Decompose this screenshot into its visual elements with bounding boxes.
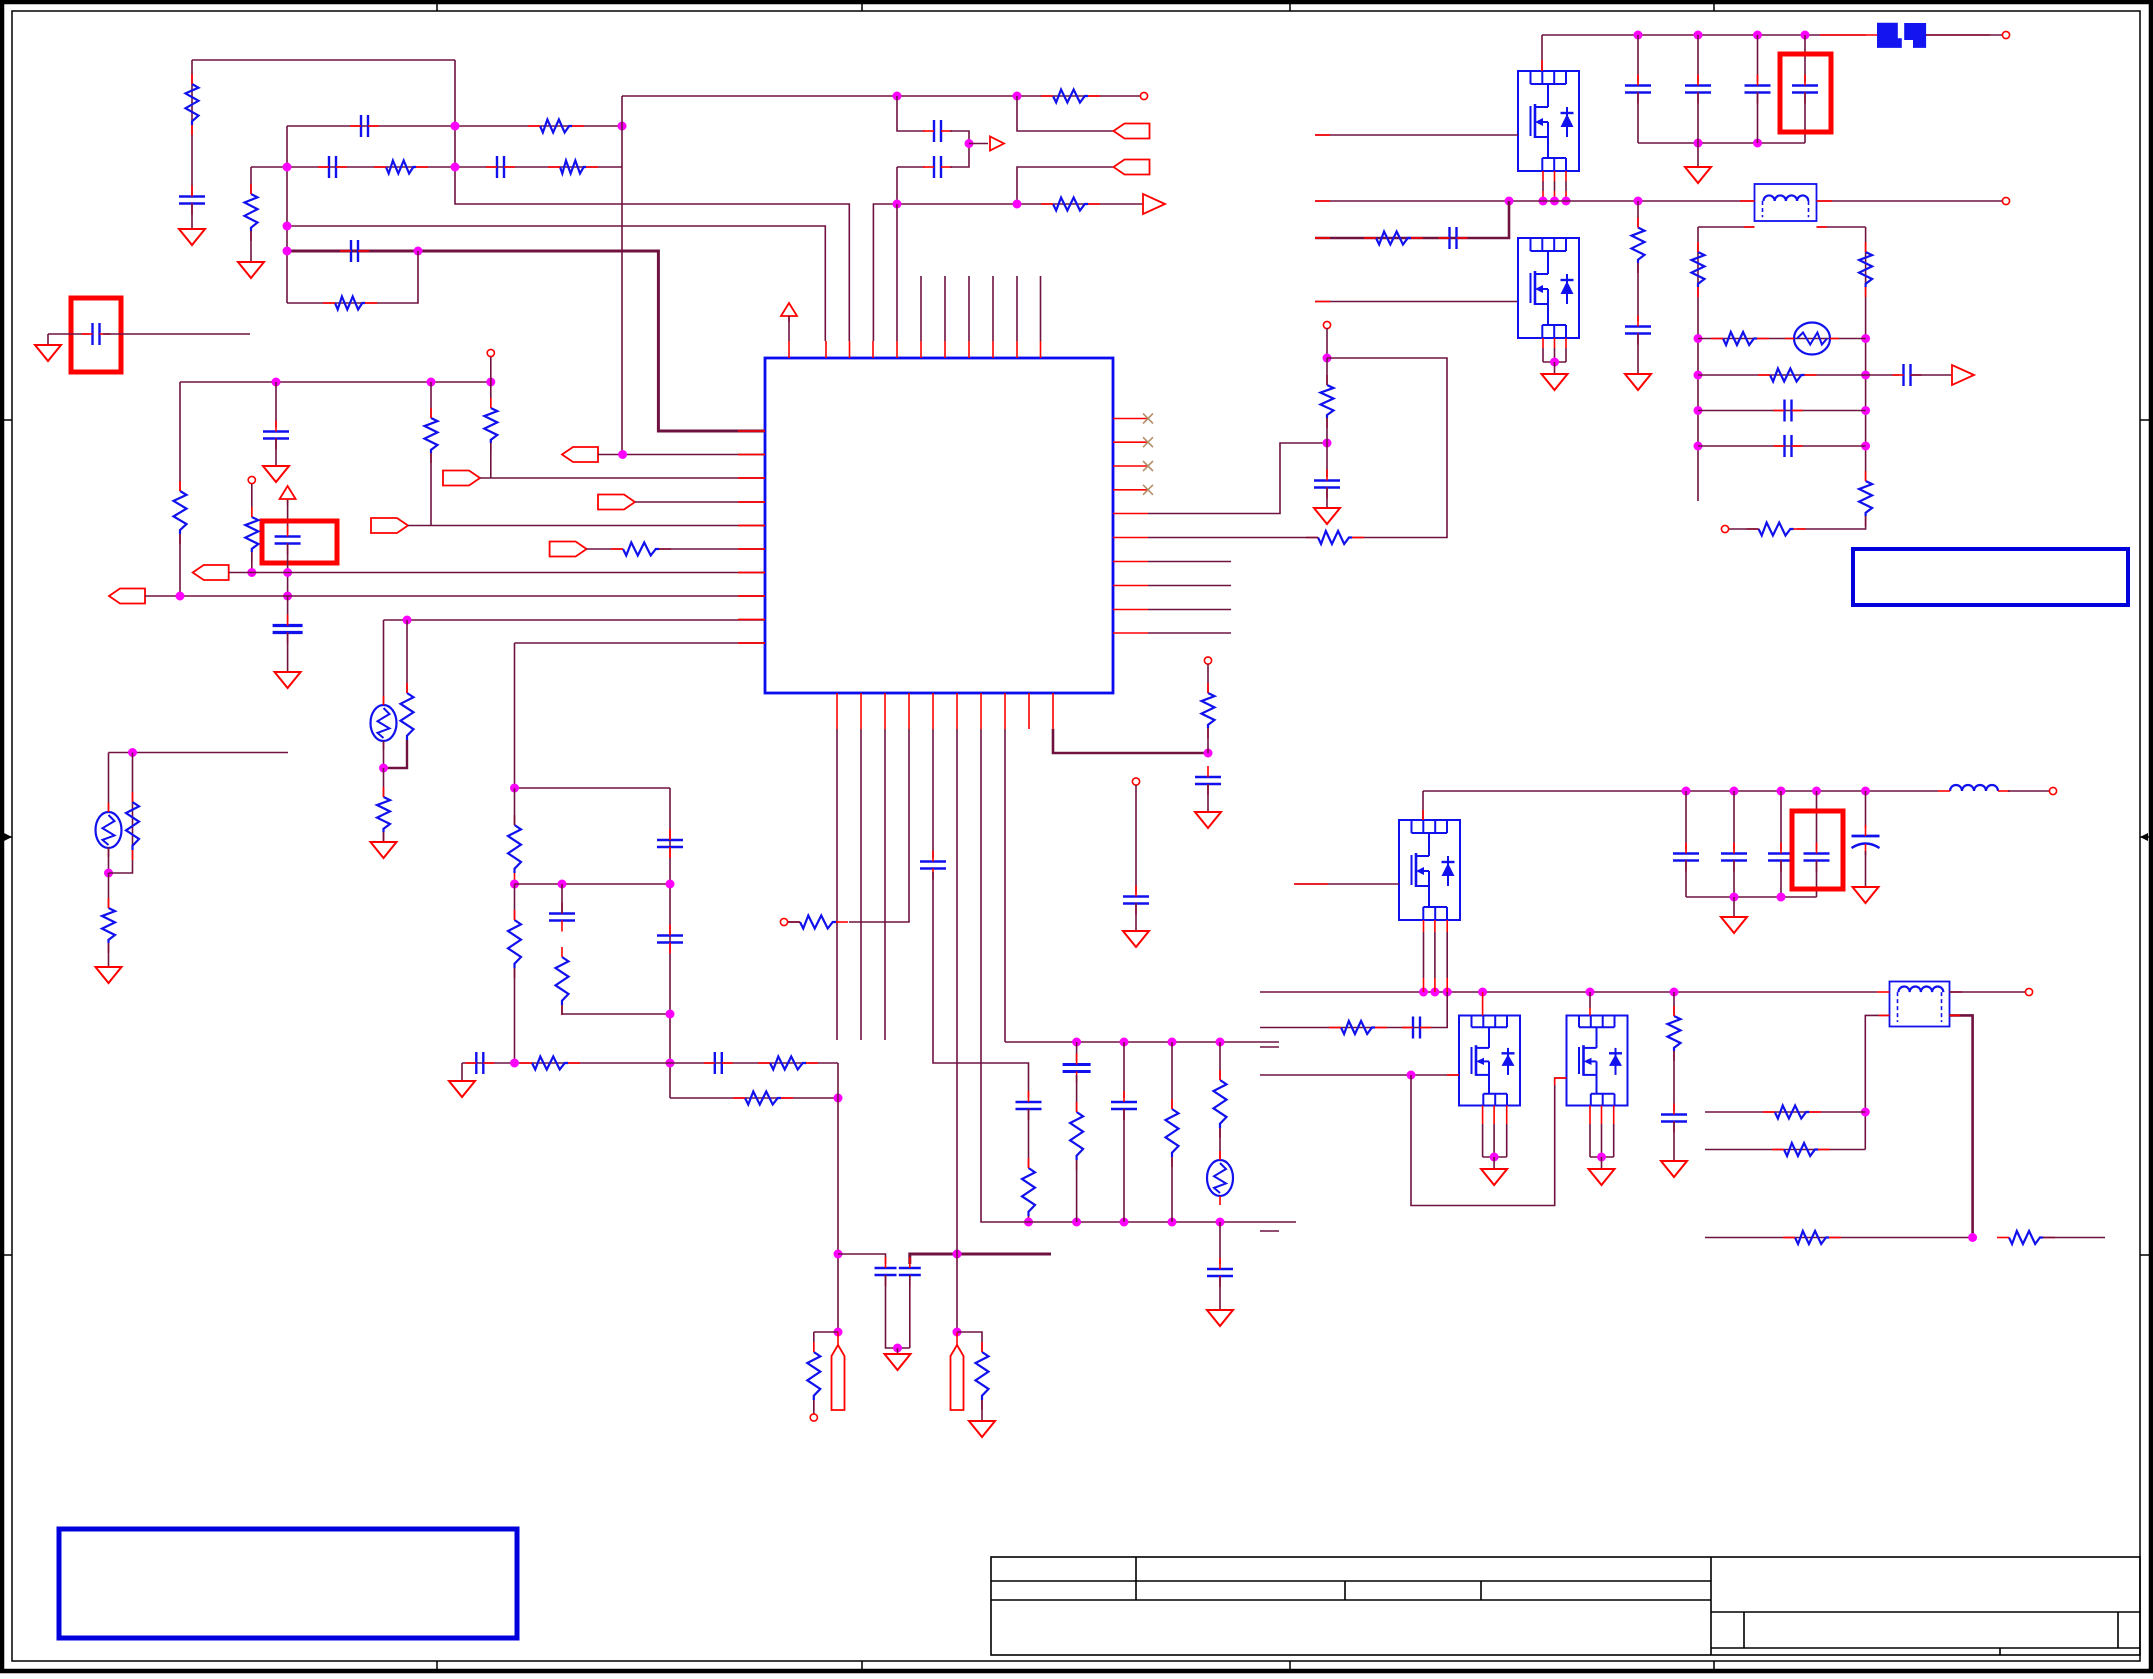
wire vcc stem	[788, 316, 790, 341]
node row1042 1172	[1168, 1038, 1177, 1047]
capacitor bank1 1757.5	[1745, 75, 1771, 104]
node 1208-753	[1204, 749, 1213, 758]
wire x514 884-920	[514, 884, 516, 920]
ground G1	[179, 229, 205, 245]
wire rail R1	[1865, 227, 1867, 481]
wire row752	[109, 752, 289, 754]
wire x108 873-908	[108, 873, 110, 908]
wire src4 stem	[1493, 1157, 1495, 1169]
node L1 446	[1694, 442, 1703, 451]
terminal T2	[487, 349, 494, 356]
node 670-1063	[666, 1059, 675, 1068]
connector J3	[562, 447, 598, 462]
pin U1 top 7	[944, 341, 946, 358]
capacitor C25	[1123, 886, 1149, 915]
wire x1638 263-321	[1637, 263, 1639, 321]
wire capB down	[909, 1275, 911, 1348]
wire rung2-3	[1705, 1237, 1973, 1239]
node row1-622	[618, 122, 627, 131]
resistor R43	[1783, 1231, 1841, 1244]
pin U1 top 6	[920, 341, 922, 358]
resistor R32	[1632, 218, 1645, 274]
wire x813 1400-1414	[813, 1400, 815, 1414]
wire 251 552-572	[251, 552, 253, 573]
wire row2 y167	[251, 166, 622, 168]
wire rung2-1	[1705, 1111, 1865, 1113]
node bus1222 1172	[1168, 1218, 1177, 1227]
node 514-1063	[510, 1059, 519, 1068]
capacitor C29	[1625, 75, 1651, 104]
wire row585.5	[1148, 585, 1231, 587]
wire gate5 route	[1411, 1075, 1567, 1206]
terminal T9	[2002, 31, 2009, 38]
wire pin837 down	[836, 729, 838, 1040]
ground G10	[1195, 812, 1221, 828]
node 490-382	[486, 378, 495, 387]
wire x1327 329-358	[1326, 328, 1328, 358]
terminal T12	[2049, 787, 2056, 794]
wire row382	[180, 381, 491, 383]
ground G5	[96, 967, 122, 983]
capacitor bank1 1805	[1792, 75, 1818, 104]
pin U1 bottom 6	[956, 693, 958, 729]
resistor R46	[377, 787, 390, 842]
node row1042 1124	[1120, 1038, 1129, 1047]
red tip row238	[1315, 237, 1330, 239]
resistor R16	[508, 910, 521, 978]
connector J4	[443, 471, 480, 486]
wire rung2-3 ext	[2043, 1237, 2105, 1239]
pin U1 left 1	[738, 430, 765, 432]
capacitor C13	[549, 903, 575, 932]
node 838-1098	[834, 1094, 843, 1103]
capacitor C28	[1625, 316, 1651, 345]
node bus1 1757.5	[1753, 31, 1762, 40]
wire src4 1494.1	[1493, 1106, 1495, 1158]
ground G2	[35, 345, 61, 361]
wire xfmr2 to term	[1950, 991, 2026, 993]
node 108-873	[104, 869, 113, 878]
wire sec1	[1698, 226, 1755, 228]
ground G7	[885, 1354, 911, 1370]
highlight box red B2	[262, 521, 337, 563]
thermistor RT3	[1785, 323, 1839, 355]
wire row1098	[670, 1097, 838, 1099]
resistor R15	[508, 815, 521, 883]
wire R1 bottom	[1797, 516, 1866, 529]
connector J6	[371, 518, 408, 533]
capacitor C34	[1402, 1017, 1431, 1039]
annotation box right	[1853, 549, 2128, 605]
wire bus201 a	[1315, 200, 1755, 202]
node 670-1014	[666, 1010, 675, 1019]
connector J5	[598, 495, 635, 510]
resistor R35	[1711, 332, 1769, 345]
mosfet module Q1	[1518, 71, 1579, 171]
node 1972-1237	[1968, 1233, 1977, 1242]
wire loop 358	[1327, 358, 1447, 538]
resistor R3 row2	[374, 161, 428, 174]
wire bank1 bot 1698	[1697, 93, 1699, 143]
pin U1 left 9	[738, 619, 765, 621]
wire src5 1613.7	[1613, 1106, 1615, 1158]
red tip gate2	[1315, 301, 1330, 303]
red xfmr1 leads	[1740, 200, 1832, 202]
wire 514-788 row	[515, 787, 671, 789]
node x287 y167	[283, 163, 292, 172]
pin U1 left 5	[738, 525, 765, 527]
wire src5 join	[1590, 1156, 1614, 1158]
capacitor C9	[263, 421, 289, 450]
wire bus201 b	[1817, 200, 2004, 202]
ground G15	[1685, 167, 1711, 183]
capacitor C8 in box	[82, 323, 111, 345]
resistor R39	[1329, 1021, 1387, 1034]
wire rung4	[1698, 445, 1866, 447]
resistor R6 row96	[1041, 90, 1100, 103]
wire 251 480-516	[251, 484, 253, 517]
wire src4 join	[1483, 1156, 1507, 1158]
resistor R40	[1668, 1006, 1681, 1061]
wire x562 1005-1014	[562, 1005, 670, 1014]
capacitor bank1 1698	[1685, 75, 1711, 104]
wire x1674 1051-1111	[1673, 1051, 1675, 1111]
capacitor C4 row2	[486, 156, 515, 178]
red tip gate1	[1315, 134, 1330, 136]
wire bank2 bot 1686	[1685, 861, 1687, 897]
resistor R21	[807, 1342, 820, 1410]
pin U1 right 10	[1113, 632, 1148, 634]
node busP2 1686	[1682, 787, 1691, 796]
resistor R2b	[245, 184, 258, 241]
wire x407 740-768	[384, 740, 408, 768]
terminal T13	[2025, 988, 2032, 995]
wire x1674 992-1016	[1673, 992, 1675, 1016]
node bus1222 1220	[1216, 1218, 1225, 1227]
wire C8 gnd stem	[47, 334, 49, 345]
node bus201 1566	[1562, 197, 1571, 206]
pin U1 top 11	[1040, 341, 1042, 358]
node 514-884	[510, 880, 519, 889]
wire x180 534-595	[179, 534, 181, 595]
wire gate4 row	[1260, 1074, 1459, 1076]
wire drain3 riser	[1422, 791, 1424, 820]
node row1042 1220	[1216, 1038, 1225, 1047]
wire x1208 664-693	[1207, 664, 1209, 693]
pin U1 left 2 overlay	[738, 454, 765, 456]
wire x407 down	[406, 620, 408, 693]
terminal T3	[248, 476, 255, 483]
wire sec2 right	[1950, 1015, 1973, 1237]
wire x622 96-454	[621, 96, 623, 455]
wire pin885 down	[884, 729, 886, 1040]
red tip bus201	[1315, 200, 1330, 202]
wire stub pin 1040.5	[1040, 276, 1042, 341]
wire pin933 b	[933, 872, 1029, 1098]
resistor R27	[1214, 1070, 1227, 1138]
connector J10 up	[832, 1345, 845, 1410]
transformer TR2	[1890, 982, 1950, 1027]
wire bank1 top 1805	[1804, 35, 1806, 82]
wire rung1	[1698, 338, 1866, 340]
node bus201 1638	[1634, 197, 1643, 206]
node row96 1017	[1013, 92, 1022, 101]
resistor R10	[425, 408, 438, 463]
wire x180 382-491	[179, 382, 181, 491]
wire x383 down	[383, 620, 385, 705]
power arrow VCC	[781, 303, 797, 322]
resistor R13	[126, 792, 139, 860]
pin U1 right 3	[1113, 465, 1148, 467]
connector J11 up	[951, 1345, 964, 1410]
resistor R7 row204	[1041, 198, 1100, 211]
pin U1 left 2	[738, 454, 765, 456]
pin U1 left 10 overlay	[738, 642, 765, 644]
resistor R36	[1758, 369, 1817, 382]
wire row454	[598, 454, 765, 456]
wire row478	[480, 477, 765, 479]
power arrow 2	[280, 486, 296, 505]
wire bus1 y35	[1542, 34, 1866, 36]
node bus2 1434.9	[1430, 988, 1439, 997]
capacitor C12	[657, 829, 683, 858]
thermistor RT4	[371, 696, 397, 750]
wire bank2 top 1781	[1780, 791, 1782, 850]
wire row561.5	[1148, 561, 1231, 563]
wire x490 353-407	[490, 357, 492, 408]
node 838-1254	[834, 1250, 843, 1259]
wire x1124 1042-1098	[1123, 1042, 1125, 1098]
wire x670 788-1098	[669, 788, 671, 1098]
ground G19	[1589, 1169, 1615, 1185]
wire bank2 bot 1734	[1733, 861, 1735, 897]
wire x287 126-303	[286, 126, 288, 303]
capacitor C20	[1016, 1091, 1042, 1120]
pin U1 bottom 9	[1028, 693, 1030, 729]
no-connect X right pin 2	[1143, 437, 1153, 447]
wire row1332	[814, 1331, 838, 1333]
pin U1 right 2	[1113, 441, 1148, 443]
red gate5	[1555, 1078, 1567, 1085]
wire x1124 1110-1222	[1123, 1109, 1125, 1222]
node bus1 1638	[1634, 31, 1643, 40]
wire x132 752-873	[109, 753, 133, 874]
wire row238	[1315, 201, 1509, 238]
ground G21	[371, 842, 397, 858]
no-connect X right pin 1	[1143, 414, 1153, 424]
pin U1 top 8	[968, 341, 970, 358]
wire rung2 ext2	[1911, 374, 1952, 376]
pin U1 top 9	[992, 341, 994, 358]
wire x1327 488-508	[1326, 488, 1328, 508]
pin U1 right 4	[1113, 489, 1148, 491]
wire row596	[145, 595, 765, 597]
wire x1327 418-443	[1326, 418, 1328, 443]
wire bank2 bot 1816.5	[1816, 861, 1818, 897]
wire stub pin 921	[920, 276, 922, 341]
wire sec1b	[1817, 226, 1866, 228]
wire row96	[622, 95, 1144, 97]
wire rung3	[1698, 410, 1866, 412]
resistor R12 row549	[611, 543, 671, 556]
node bus1 1698	[1694, 31, 1703, 40]
wire src1 1543	[1542, 171, 1544, 201]
pin U1 bottom 2	[860, 693, 862, 729]
resistor R14	[102, 898, 115, 953]
ground G9	[1207, 1310, 1233, 1326]
ground G17	[1853, 887, 1879, 903]
wire row1027	[1260, 992, 1447, 1028]
wire x1136 904-931	[1135, 903, 1137, 931]
ground G11	[1123, 931, 1149, 947]
node src2	[1550, 358, 1559, 367]
wire src4 1482.6	[1482, 1106, 1484, 1158]
wire bus1 to term	[1926, 34, 2003, 36]
pin U1 left 3	[738, 477, 765, 479]
wire C9 gnd	[275, 439, 277, 466]
mosfet module Q4	[1459, 1016, 1520, 1106]
node row1042 1076.6	[1072, 1038, 1081, 1047]
wire row513	[1148, 443, 1327, 514]
pin U1 right 6	[1113, 537, 1148, 539]
node R1 410.5	[1861, 406, 1870, 415]
capacitor C11 thick	[273, 615, 303, 644]
pin U1 left 6	[738, 548, 765, 550]
ground G4	[275, 672, 301, 688]
resistor R38	[1747, 523, 1806, 536]
wire row226	[287, 226, 825, 341]
resistor R20	[733, 1092, 793, 1105]
node 562-884	[558, 880, 567, 889]
wire gnd stem 897	[897, 1348, 899, 1354]
wire x431 382-418	[430, 382, 432, 418]
capacitor C16	[704, 1052, 733, 1074]
capacitor C24	[1195, 766, 1221, 795]
ground G14	[1625, 374, 1651, 390]
wire gate3	[1294, 883, 1399, 885]
resistor R11	[245, 507, 258, 562]
red gate4	[1447, 1074, 1459, 1076]
terminal T6	[1204, 657, 1211, 664]
wire to buffer	[969, 143, 988, 145]
thermistor RT2	[1207, 1151, 1233, 1205]
wire 287 544-595	[287, 544, 289, 595]
wire capA down	[886, 1275, 910, 1348]
wire row525	[408, 525, 765, 527]
pin U1 left 7 overlay	[738, 572, 765, 574]
capacitor C33 pol	[1852, 825, 1880, 855]
wire src2 1543	[1542, 338, 1544, 362]
wire C8 right	[103, 333, 250, 335]
pin U1 left 8 overlay	[738, 595, 765, 597]
wire drain4	[1482, 992, 1484, 1016]
red xfmr2 leads	[1877, 991, 1962, 993]
wire x1208 784-812	[1207, 784, 1209, 812]
node bus2 1482.6	[1478, 988, 1487, 997]
wire stub pin 945	[944, 276, 946, 341]
wire gate1	[1315, 134, 1518, 136]
red sec2 l	[1879, 1014, 1890, 1016]
pin U1 top 4	[872, 341, 874, 358]
node 1865-1112	[1861, 1108, 1870, 1117]
node bus201 1554.5	[1550, 197, 1559, 206]
capacitor C2 row1	[350, 115, 379, 137]
node 1327-443	[1323, 439, 1332, 448]
node 957-1332	[953, 1328, 962, 1337]
wire row131 conn	[1017, 96, 1114, 131]
mosfet module Q2	[1518, 238, 1579, 338]
wire row572	[229, 572, 765, 574]
capacitor bank2 1781	[1768, 843, 1794, 872]
wire row1063 west	[462, 1062, 838, 1064]
capacitor C22	[1111, 1091, 1137, 1120]
resistor R34	[1859, 242, 1872, 297]
pin U1 right 8	[1113, 585, 1148, 587]
capacitor C10 in box	[275, 526, 301, 555]
wire 287 595-621	[287, 596, 289, 622]
pin U1 left 4	[738, 501, 765, 503]
node row204 1017	[1013, 200, 1022, 209]
wire src3 1434.9	[1434, 920, 1436, 992]
capacitor C18	[899, 1257, 921, 1286]
capacitor C17	[875, 1257, 897, 1286]
wire x383 768-797	[383, 768, 385, 797]
wire ind to term	[2008, 790, 2050, 792]
wire x1638 35-82	[1637, 35, 1639, 82]
buffer arrow A1	[990, 137, 1004, 151]
resistor R9	[484, 398, 497, 453]
pin U1 bottom 3	[884, 693, 886, 729]
node 897-1348	[893, 1344, 902, 1353]
wire x1638 334-374	[1637, 334, 1639, 374]
wire busP2	[1423, 790, 1938, 792]
pin U1 right 9	[1113, 609, 1148, 611]
pin U1 top 10	[1016, 341, 1018, 358]
node 132-752	[128, 748, 137, 757]
wire bank1 bot 1757.5	[1757, 93, 1759, 143]
node bus201 1543	[1539, 197, 1548, 206]
node 287-571	[283, 568, 292, 577]
wire x1076 1160-1222	[1076, 1160, 1078, 1222]
resistor R29	[1321, 375, 1334, 428]
logo LT	[1877, 23, 1926, 48]
wire drain5	[1589, 992, 1591, 1016]
resistor R2 row1	[528, 120, 584, 133]
node L1 410.5	[1694, 406, 1703, 415]
wire x108 752-812	[108, 753, 110, 814]
wire gate2	[1315, 301, 1518, 303]
wire row620	[384, 619, 766, 621]
pin U1 bottom 4	[908, 693, 910, 729]
wire x897 167-204	[896, 167, 898, 204]
wire src5 stem	[1601, 1157, 1603, 1169]
wire src2 join	[1543, 361, 1566, 363]
node 383-768	[379, 764, 388, 773]
wire src2 stem	[1554, 362, 1556, 374]
wire bank1 top 1757.5	[1757, 35, 1759, 82]
resistor R41	[1763, 1106, 1821, 1119]
wire bus2	[1260, 991, 1877, 993]
node buffer in	[965, 139, 974, 148]
wire x897 96-131	[897, 96, 925, 131]
node 838-1332	[834, 1328, 843, 1337]
wire x1220 1277-1310	[1219, 1277, 1221, 1310]
wire x514 968-1063	[514, 968, 516, 1063]
terminal T5	[780, 918, 787, 925]
ground G20	[1661, 1161, 1687, 1177]
wire x108 943-967	[108, 943, 110, 967]
connector J7	[550, 542, 587, 557]
